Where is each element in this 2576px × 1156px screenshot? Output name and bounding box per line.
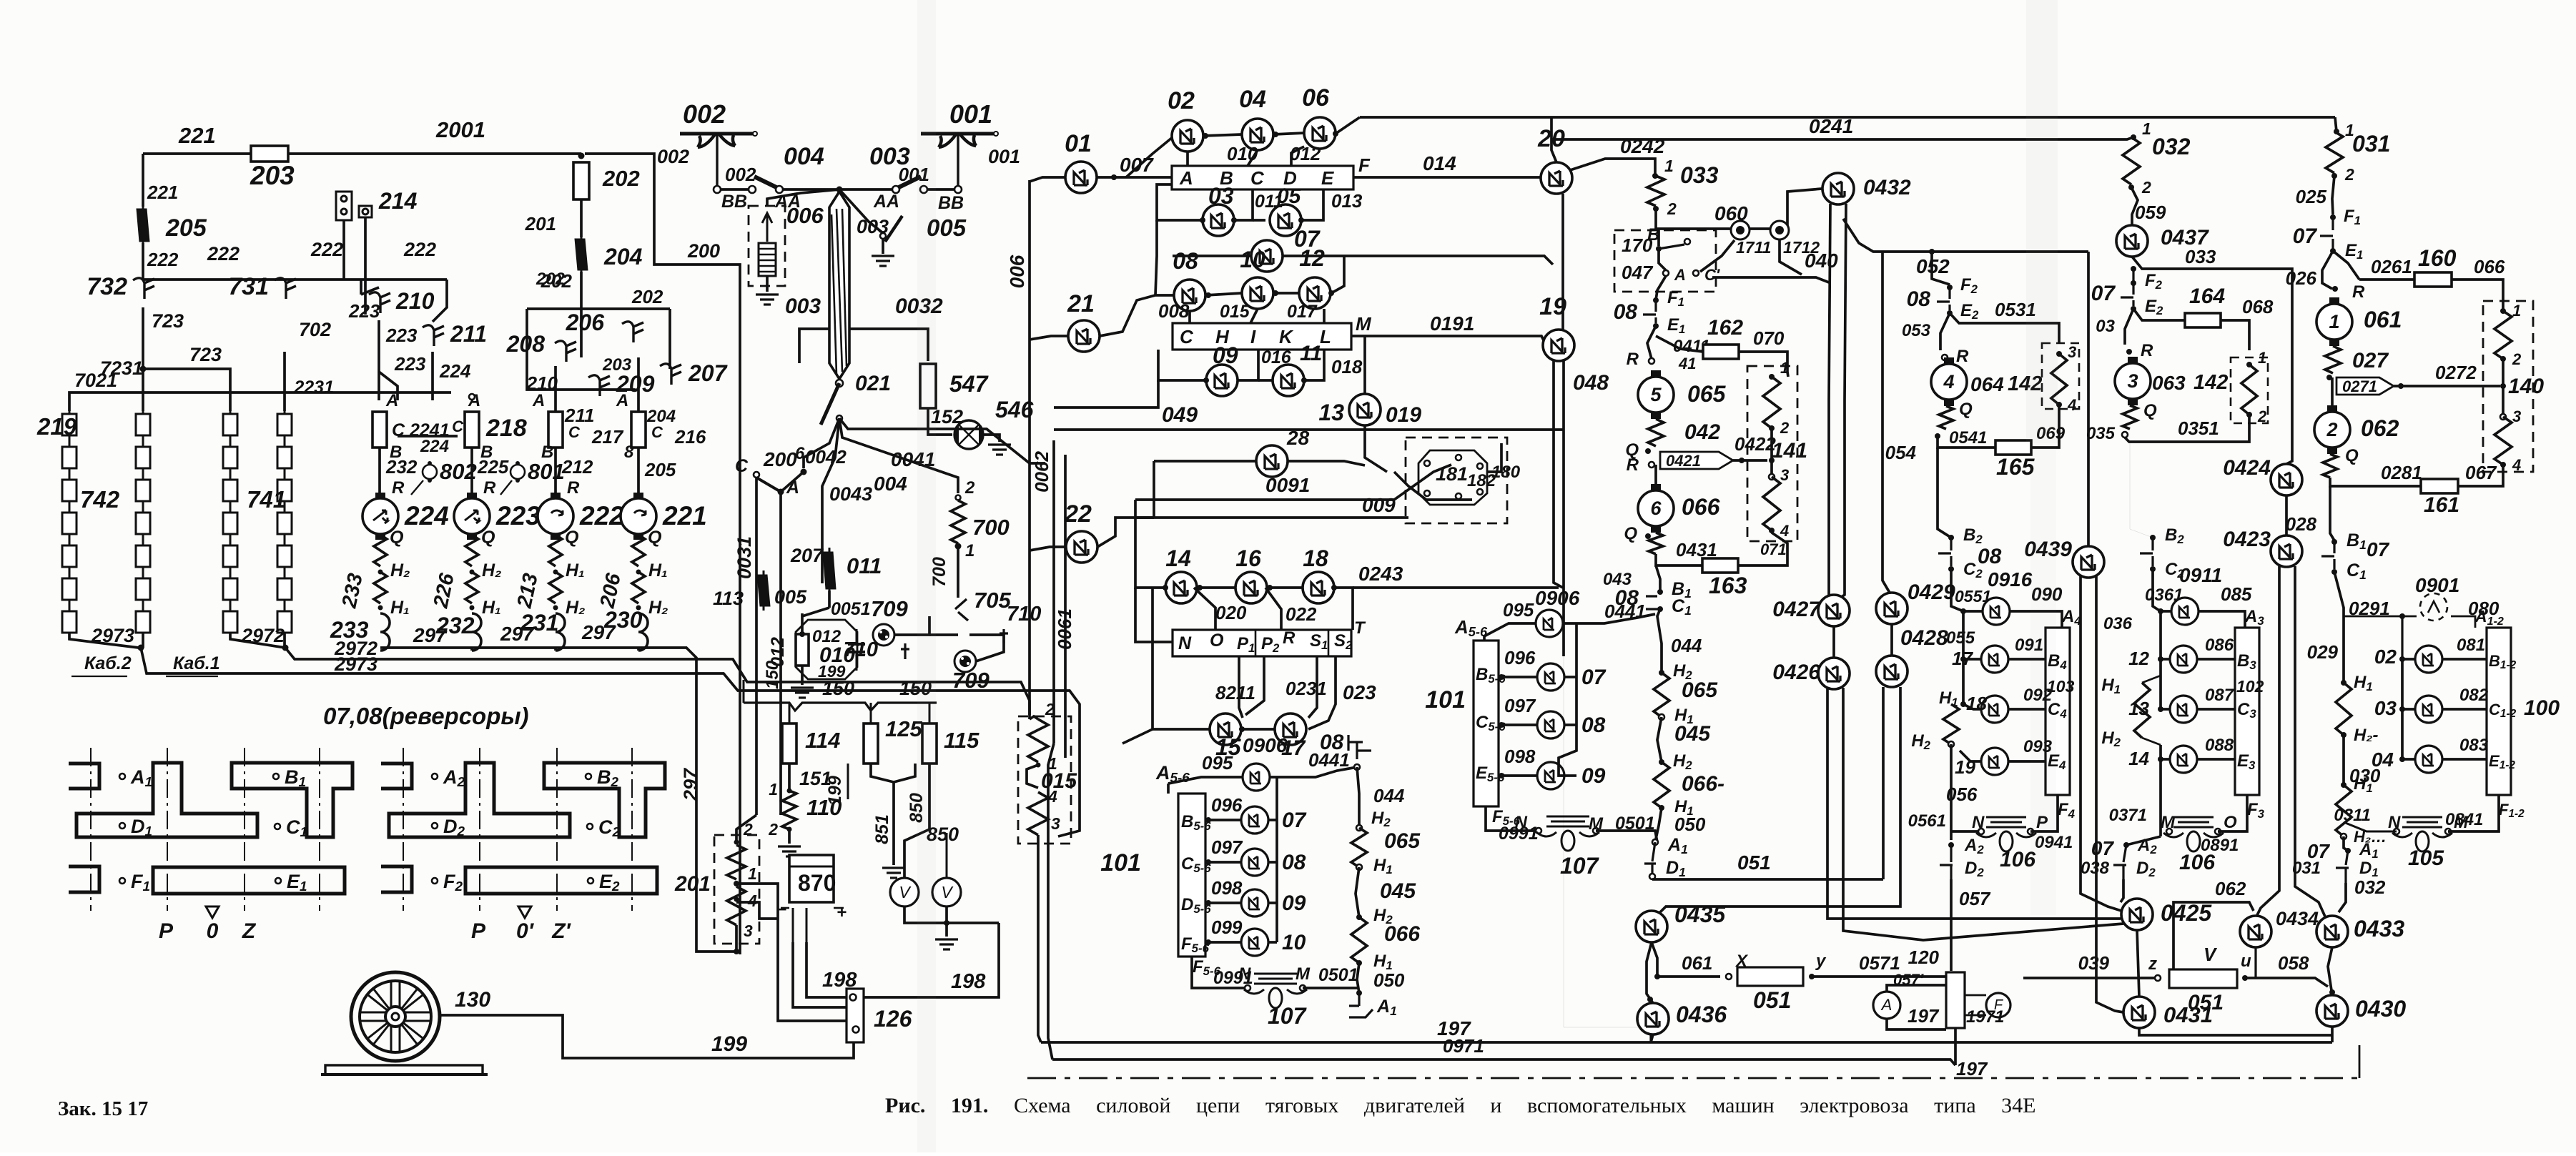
resistor 203 [251,146,288,162]
svg-text:208: 208 [506,331,546,357]
node R 5b [1649,462,1654,468]
svg-text:100: 100 [2524,696,2560,720]
wire 0430 bottom [2331,1027,2334,1042]
svg-text:709: 709 [871,596,908,621]
svg-text:028: 028 [2286,513,2317,535]
ladder wire x322 4 [230,534,232,545]
svg-text:202: 202 [631,286,663,307]
wire 098 [1205,901,1240,904]
wire F3 bottom [2218,795,2247,831]
wire 0432 down a [1829,204,1830,595]
svg-text:0906: 0906 [1535,587,1580,609]
wire 087 r [2196,708,2235,711]
terminal B1 [273,774,279,779]
ground 005 [872,256,894,266]
box 141 [1747,366,1797,541]
svg-text:0311: 0311 [2334,806,2371,825]
ladder wire x97 3 [69,501,71,513]
svg-text:160: 160 [2418,245,2457,271]
plug 710 [1000,629,1008,643]
drum contact 211b [548,412,563,448]
pivot 021 [836,380,843,387]
node 4 141 [1769,528,1775,533]
wire 101 l bus [1275,777,1278,942]
svg-text:A: A [1674,266,1686,284]
wire 045 m [1657,717,1662,762]
terminal E1 [275,878,281,884]
ladder resistor x398 1 [277,414,292,435]
wire 006 vert [1028,180,1031,429]
ladder top x322 [230,411,232,414]
node B1 mid [1657,589,1663,595]
svg-text:41: 41 [1678,355,1696,372]
resistor 162 [1703,345,1739,359]
svg-text:2001: 2001 [435,117,485,142]
wire 097 [1205,861,1240,864]
wire 207 drop [779,495,782,815]
node 3 142a [2056,351,2062,357]
svg-text:013: 013 [1331,190,1363,212]
socket 709 right [954,651,976,672]
svg-text:A: A [1880,996,1892,1014]
wire 21 up row [1100,295,1174,336]
svg-text:0423: 0423 [2223,528,2271,551]
node 04 r [1273,132,1278,137]
node 033-F2 [2131,266,2136,272]
wire 221/2001 bus [143,152,581,155]
contact 07 b [2121,283,2133,306]
ladder resistor x322 7 [223,611,237,633]
wire 044 m [1657,609,1662,673]
wire merge 221 [637,648,640,651]
ladder wire x97 4 [69,534,71,545]
box 102 [2235,628,2259,795]
spare vent 0901 (dashed circle) [2420,593,2447,621]
node H1 m [1659,714,1664,720]
svg-text:F: F [1358,154,1371,176]
svg-text:1: 1 [2329,311,2339,332]
coil 233 [380,613,390,651]
node C1 mid [1657,606,1663,612]
svg-text:232: 232 [435,613,475,638]
vent contactor 093 [1981,748,2008,775]
svg-text:09: 09 [1581,764,1606,788]
svg-text:R: R [1283,628,1296,648]
wire 0439 down b [2096,576,2123,1012]
node H1 213 [553,606,558,611]
wire 12-13 [2159,659,2162,709]
node 02 r [1203,133,1208,139]
pin 126 a [850,994,857,1001]
svg-text:Z′: Z′ [551,919,571,943]
wire 201-126 b [736,902,778,919]
vent contactor 085 [2171,598,2199,625]
wire 870 b [806,908,808,942]
bus 0241 [1360,116,2335,119]
wire 201-126 a [736,884,847,1021]
svg-text:0541: 0541 [1949,428,1987,448]
ammeter 197 [1873,992,1900,1019]
wire 040 [1712,277,1829,282]
contact D2 4 [1940,845,1953,879]
svg-text:P: P [159,919,174,943]
wire 16-18 [1267,586,1303,589]
wire 058 [2245,978,2328,987]
ladder resistor x200 3 [136,480,150,501]
fuse 113 [757,570,770,611]
svg-text:016: 016 [1261,347,1292,367]
wire 723 down [142,307,144,411]
node R 5 [1649,358,1654,364]
svg-text:802: 802 [440,459,477,484]
node H1 m b [1659,805,1664,811]
wire F meter [1965,994,1986,997]
svg-text:032: 032 [2152,134,2191,159]
svg-text:098: 098 [1504,746,1536,767]
svg-text:010: 010 [1227,143,1258,164]
inductor Q 206 [632,535,645,566]
wire 011 to 012 [801,613,804,635]
wire 0441 l [1270,767,1357,777]
wire 1712 down [1780,239,1802,275]
svg-text:221: 221 [178,123,216,148]
svg-text:V: V [2204,944,2218,965]
terminal N l [1245,985,1250,991]
node A1 l [1356,990,1362,996]
wire 051 mid [1652,878,1883,881]
ladder wire x322 5 [230,567,232,578]
inductor Q 233 [374,535,387,566]
node A2 3 [2123,842,2129,848]
vent contactor 092 [1981,696,2008,723]
svg-text:I: I [1250,326,1256,347]
wire 080 b [2451,616,2475,628]
ladder wire x200 4 [142,534,144,545]
svg-text:01: 01 [1065,130,1092,157]
svg-text:08: 08 [1173,248,1198,274]
wire 221 drop [142,154,144,207]
wire 0291 a [2334,572,2344,616]
underline Каб1 [166,676,218,677]
svg-text:049: 049 [1162,403,1198,427]
ladder wire x97 6 [69,600,71,611]
terminal M m [1593,828,1599,834]
node 08 r [1205,292,1211,298]
contactor 05 [1270,204,1301,236]
wire 09-I [1238,350,1258,380]
wire 06 to bus [1336,117,1360,134]
terminal O b [2215,829,2221,834]
wire 038 down [2121,879,2123,902]
node 0361 [2158,608,2163,614]
svg-text:M: M [1296,964,1311,984]
svg-text:0436: 0436 [1676,1002,1727,1027]
wire 224 to 211 [433,280,447,322]
terminal A2 [432,774,438,779]
arrester 006 [759,243,776,276]
svg-text:009: 009 [1362,494,1396,516]
terminal M c [2445,829,2451,834]
wire 006 vert b [1028,429,1031,719]
svg-text:031: 031 [2352,131,2390,157]
contactor 0434 [2240,916,2271,947]
svg-text:2: 2 [2512,350,2522,368]
svg-text:088: 088 [2205,736,2234,755]
node 3 141 [1769,474,1775,480]
reversor 2 segment A-D (T shape) [389,763,570,837]
svg-text:0911: 0911 [2179,564,2222,586]
svg-text:020: 020 [1215,602,1247,623]
svg-text:199: 199 [711,1032,747,1056]
svg-text:2: 2 [964,478,975,498]
vent contactor 095 [1243,764,1270,791]
switch group box N-S2 [1173,630,1351,656]
arrester 006 dashed box [749,206,785,286]
svg-text:105: 105 [2408,846,2444,870]
svg-text:0426: 0426 [1772,661,1820,684]
lamp 546 [954,420,983,449]
wire 150 left stub [743,680,745,703]
svg-text:H₂-: H₂- [2354,726,2378,745]
svg-text:225: 225 [477,456,509,478]
wire 098 r [1269,901,1277,904]
node H1 206 [636,606,641,611]
svg-text:1: 1 [769,780,778,799]
wire 011 down [828,591,831,608]
svg-text:18: 18 [1303,545,1328,571]
svg-text:231: 231 [520,610,558,636]
contact 08 mid [1646,596,1660,609]
svg-text:R: R [2141,341,2153,360]
wire 7021 [69,392,451,411]
wire 0242 [1570,159,1655,174]
svg-text:Каб.1: Каб.1 [173,653,220,673]
vent contactor 099 [1241,929,1268,956]
resistor 065 l [1351,828,1367,867]
node E1 5 [1653,323,1659,329]
svg-text:M: M [2161,813,2176,832]
scan band a [917,0,936,1152]
contactor 07 [1251,240,1283,272]
resistor 051 b [2169,969,2237,988]
wire 163-141 [1738,533,1787,565]
ground 012 [791,688,814,698]
resistor 115 [922,723,937,764]
reversor 2 segment B-C [544,763,665,837]
svg-text:H₂: H₂ [648,598,668,618]
switch 003 blade [896,177,921,189]
contact 005 [880,233,886,239]
svg-text:07: 07 [1581,666,1607,689]
underline Каб2 [71,676,127,677]
wire 0439 up [2087,252,2090,546]
wire 15 l [1153,728,1210,731]
wire 04-06 [1273,133,1304,134]
resistor 141a [1763,377,1780,428]
svg-text:004: 004 [874,473,907,495]
svg-text:0241: 0241 [1809,115,1853,137]
node 3 201b [734,949,739,954]
node H1 c [2341,680,2346,686]
wire 025 [2332,176,2334,214]
svg-text:217: 217 [591,426,624,448]
svg-text:097: 097 [1211,836,1243,858]
svg-text:u: u [2241,952,2251,971]
contactor 15 [1210,713,1241,745]
wire 201 bottom [735,925,738,952]
vent contactor 091 [1981,646,2008,673]
svg-text:054: 054 [1885,442,1917,463]
svg-text:036: 036 [2103,614,2133,633]
wire box-09 l [1158,350,1206,380]
svg-text:A: A [1179,167,1193,189]
svg-text:2972: 2972 [241,625,285,646]
svg-text:K: K [1279,326,1294,347]
wire V join [904,906,947,923]
svg-text:0501: 0501 [1318,965,1358,985]
svg-text:141: 141 [1772,439,1807,463]
wire 093 r [2008,760,2045,763]
node 1 140 [2500,308,2506,314]
wire 05-E [1301,189,1323,220]
node above 218 [469,394,475,400]
inductor Q 226 [465,535,478,566]
wire 28 right [1288,461,1365,465]
wire 11-L [1304,350,1324,380]
contactor 12 [1299,277,1331,309]
svg-text:702: 702 [299,319,331,340]
vent contactor 083 [2415,746,2442,773]
contactor 06 [1304,117,1336,149]
node 1 031 [2334,129,2339,134]
svg-text:Z: Z [242,919,257,943]
wire 202 branch [527,309,636,390]
wire B motor224 [378,448,381,496]
contactor 732 [133,278,154,299]
svg-text:181: 181 [1436,463,1468,485]
wire B-A [1659,249,1666,270]
ladder wire x322 2 [230,468,232,480]
node 2 140 [2500,356,2506,362]
svg-text:095: 095 [1202,752,1233,774]
svg-text:1: 1 [1780,359,1789,377]
terminal box 126 [847,989,864,1042]
svg-text:222: 222 [403,239,436,260]
node R 3 [2126,349,2132,355]
wire 151 [788,764,791,791]
svg-text:1: 1 [1664,157,1674,175]
ladder resistor x398 4 [277,513,292,534]
wire 223 down [377,320,380,400]
ladder wire x97 2 [69,468,71,480]
dash to 801 [500,480,512,495]
ladder resistor x200 2 [136,447,150,468]
svg-text:106: 106 [2000,848,2035,871]
svg-text:Рис. 191. Схема силовой цепи т: Рис. 191. Схема силовой цепи тяговых дви… [885,1094,2035,1117]
wire 028 [2330,486,2334,540]
svg-text:R: R [1956,347,1969,366]
contact BB right a [954,186,962,193]
wire 04 to box [1248,150,1258,166]
svg-text:297: 297 [680,767,701,801]
wire 091 r [2008,658,2045,661]
coil 226 [472,613,481,651]
node 16 r [1267,585,1273,591]
svg-text:222: 222 [310,239,343,260]
wire 02 row [2402,658,2416,661]
wire 198 up join [947,922,999,924]
svg-text:07: 07 [1282,809,1307,832]
node E1 1 [2330,248,2336,254]
resistor 0431z [1649,533,1663,554]
ground 006 [756,295,779,305]
wire 700 down [957,546,959,598]
plug pin [1477,463,1483,469]
svg-text:218: 218 [485,415,527,442]
wire 015 tap [1027,765,1038,788]
wire 16 to box [1265,588,1281,630]
contactor 0427 [1818,595,1850,626]
svg-text:BB: BB [721,192,747,212]
svg-text:Q: Q [2345,446,2359,465]
svg-text:4: 4 [1780,522,1789,540]
wire 0971 [1052,1059,1955,1065]
node 098 [1205,900,1211,906]
svg-text:1971: 1971 [1966,1007,2004,1027]
wire H 3 a [2142,676,2161,683]
wire 048 down [1554,361,1563,588]
svg-text:165: 165 [1996,454,2035,480]
wire 1-2 link [2331,377,2334,405]
ladder wire x97 5 [69,567,71,578]
svg-text:066: 066 [1682,494,1720,520]
plug pin [1456,455,1461,460]
wire 13 up [1363,336,1366,394]
svg-text:0424: 0424 [2223,456,2271,480]
node H2 c2 [2341,834,2346,839]
svg-text:R: R [1627,350,1639,369]
svg-text:2: 2 [2141,178,2151,197]
terminal N c [2394,829,2399,834]
contactor 731 [275,278,296,299]
node 03 g [2399,706,2405,712]
ladder wire x322 6 [230,600,232,611]
svg-text:2973: 2973 [334,653,377,675]
contact B 170 [1684,239,1690,244]
wire to 210 [360,280,362,295]
contactor 0430 [2316,995,2348,1027]
voltmeter 850 b [932,878,961,906]
contactor 20 [1541,162,1572,194]
wire 115 top [929,703,931,723]
node 17 [1960,656,1966,662]
resistor 032 [2123,137,2140,184]
contactor 0432 [1822,173,1854,204]
box 100 [2487,628,2511,795]
svg-text:0422: 0422 [1734,433,1776,455]
svg-text:4: 4 [2067,396,2076,414]
wire bus turn [2335,117,2336,132]
traction motor 224 [362,493,398,540]
svg-text:223: 223 [495,501,541,530]
svg-text:107: 107 [1560,853,1600,879]
svg-text:150: 150 [822,678,854,699]
box 015 [1018,716,1071,844]
svg-text:018: 018 [1331,356,1363,377]
reversor 2 bracket A [381,764,412,789]
svg-text:005: 005 [774,586,807,608]
wire 546 gnd [983,435,1000,442]
